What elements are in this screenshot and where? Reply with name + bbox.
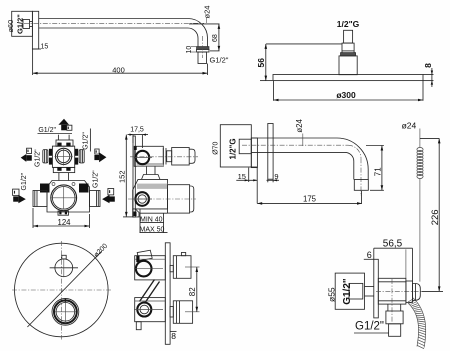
svg-text:82: 82: [188, 287, 197, 296]
svg-text:G1/2": G1/2": [355, 321, 384, 333]
svg-text:1/2"G: 1/2"G: [337, 19, 360, 29]
svg-text:ø55: ø55: [326, 287, 336, 302]
svg-text:152: 152: [118, 170, 127, 183]
svg-text:56,5: 56,5: [383, 238, 403, 249]
svg-text:G1/2": G1/2": [16, 14, 25, 34]
svg-text:10: 10: [186, 46, 193, 54]
svg-text:ø24: ø24: [402, 121, 417, 131]
svg-text:G1/2": G1/2": [210, 55, 229, 64]
svg-text:175: 175: [303, 195, 317, 204]
svg-text:G1/2": G1/2": [34, 149, 41, 167]
svg-text:400: 400: [112, 65, 125, 74]
svg-text:17,5: 17,5: [130, 127, 144, 134]
svg-text:G1/2": G1/2": [93, 170, 100, 188]
svg-text:15: 15: [41, 43, 49, 50]
svg-text:6: 6: [367, 250, 372, 260]
svg-text:G1/2": G1/2": [342, 278, 353, 305]
svg-text:226: 226: [430, 209, 441, 225]
svg-text:8: 8: [171, 331, 176, 341]
svg-text:56: 56: [256, 58, 266, 68]
svg-text:1/2"G: 1/2"G: [228, 138, 237, 159]
svg-text:ø24: ø24: [295, 119, 304, 133]
svg-text:8: 8: [423, 63, 433, 68]
svg-text:ø60: ø60: [6, 20, 15, 33]
svg-text:71: 71: [373, 167, 382, 176]
svg-text:ø300: ø300: [336, 90, 356, 100]
svg-text:G1/2": G1/2": [38, 127, 56, 134]
svg-text:ø24: ø24: [202, 6, 211, 19]
svg-text:G1/2": G1/2": [82, 132, 89, 150]
svg-text:124: 124: [57, 218, 71, 227]
svg-text:G1/2": G1/2": [21, 172, 28, 190]
svg-text:68: 68: [212, 34, 219, 42]
svg-text:Ø70: Ø70: [213, 141, 220, 154]
